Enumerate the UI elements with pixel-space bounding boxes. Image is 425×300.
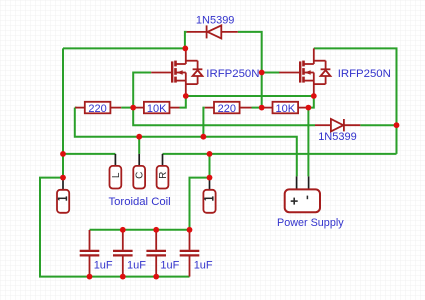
wire: R2 right lead elbow to source rail: [180, 96, 186, 108]
wire: branch to terminal L: [63, 153, 115, 155]
svg-text:Toroidal Coil: Toroidal Coil: [109, 196, 171, 208]
wire: R1 left green stub: [75, 107, 133, 109]
wire: common source rail: [186, 95, 314, 97]
junction: C4 top: [187, 227, 193, 233]
svg-text:1N5399: 1N5399: [318, 131, 357, 143]
terminal C (toroidal coil pin C): [133, 154, 145, 189]
svg-text:1uF: 1uF: [160, 259, 179, 271]
junction: C2 bottom: [120, 274, 126, 280]
wire: Q2 gate stub: [262, 72, 280, 74]
wire: left vertical rail (Q1 drain net down to terminal 1 left): [62, 48, 64, 177]
junction: R4 right / supply minus: [306, 105, 312, 111]
capacitor C1 1uF: [80, 230, 113, 277]
svg-text:1N5399: 1N5399: [196, 15, 235, 27]
svg-text:L: L: [111, 172, 122, 178]
wire: top-left rail from left vertical to Q1 drain node: [63, 47, 185, 49]
capacitor C4 1uF: [180, 230, 213, 277]
terminal L (toroidal coil pin L): [110, 154, 122, 189]
resistor R2 10K: [133, 102, 179, 115]
junction: terminal C pin on row B: [136, 134, 142, 140]
svg-text:1uF: 1uF: [94, 259, 113, 271]
svg-text:1uF: 1uF: [194, 259, 213, 271]
junction: R3 left lead on row B: [201, 134, 207, 140]
terminal R (toroidal coil pin R): [157, 154, 169, 189]
junction: D2 cathode / right vertical: [394, 122, 400, 128]
wire: diode D2 cathode lead to right vertical: [360, 124, 396, 126]
wire: R3 left lead elbow down to row B: [203, 108, 204, 137]
terminal 1 (left output): [57, 178, 69, 213]
wire: ground drop to power supply minus pin: [307, 108, 309, 177]
wire: diode D1 right lead to Q2 gate vertical: [238, 32, 262, 108]
resistor R1 220: [75, 102, 121, 115]
svg-text:C: C: [135, 172, 146, 179]
junction: C3 bottom: [153, 274, 159, 280]
resistor R4 10K: [262, 102, 307, 115]
junction: Q1 source node: [183, 93, 189, 99]
svg-text:220: 220: [88, 103, 106, 115]
svg-text:IRFP250N: IRFP250N: [338, 68, 391, 80]
junction: Q2 source node: [311, 93, 317, 99]
diode D1 1N5399 (top): [187, 25, 238, 38]
transistor Q2 IRFP250N: [279, 48, 330, 96]
wire: +V row B from R1 left lead to power supply plus pin: [75, 108, 297, 177]
junction: C1 bottom: [87, 274, 93, 280]
power supply (battery): [285, 176, 320, 212]
junction: Q2 gate tap on D1 net: [259, 70, 265, 76]
svg-text:R: R: [158, 172, 169, 179]
terminal 1 (right output): [203, 178, 215, 213]
svg-text:10K: 10K: [147, 103, 167, 115]
resistor R3 220: [205, 102, 252, 115]
wire: cap rail up to terminal 1 right: [190, 178, 210, 230]
diode D2 1N5399 (lower): [315, 119, 360, 131]
wire: bottom capacitor rail: [90, 276, 190, 278]
junction: Q1 drain node: [182, 46, 188, 52]
capacitor C2 1uF: [113, 230, 146, 277]
wire: right vertical and Q2 drain rail: [314, 48, 397, 153]
wire: top capacitor rail: [90, 229, 190, 231]
wire: Q1 gate net, down through R1/R2 junction, along diode D2 row: [133, 73, 315, 126]
wire: R3 right lead green portion: [252, 107, 262, 109]
svg-text:IRFP250N: IRFP250N: [206, 68, 259, 80]
svg-text:1uF: 1uF: [127, 259, 146, 271]
wire: Q1 drain elbow to diode D1 anode-side: [185, 32, 187, 49]
junction: left terminal-1 node: [60, 175, 66, 181]
junction: right terminal-1 node: [207, 175, 213, 181]
wire: R4 right elbow to source rail: [306, 96, 314, 108]
junction: R1/R2/gate1 node: [130, 105, 136, 111]
wire: row C from terminal R to right vertical: [163, 153, 397, 155]
svg-text:220: 220: [218, 103, 236, 115]
junction: C2 top: [120, 227, 126, 233]
wire: terminal C pin drop from row B: [138, 137, 140, 154]
svg-text:10K: 10K: [276, 103, 296, 115]
svg-text:Power Supply: Power Supply: [277, 217, 344, 229]
transistor Q1 IRFP250N: [151, 48, 202, 96]
wire: terminal 1 right up to row C: [209, 154, 211, 178]
junction: terminal L tap on left rail: [60, 151, 66, 157]
wire: left drop to bottom capacitor rail: [40, 178, 90, 277]
junction: terminal R tap on row C: [207, 151, 213, 157]
capacitor C3 1uF: [146, 230, 179, 277]
junction: R3/R4 node: [259, 105, 265, 111]
junction: C3 top: [153, 227, 159, 233]
